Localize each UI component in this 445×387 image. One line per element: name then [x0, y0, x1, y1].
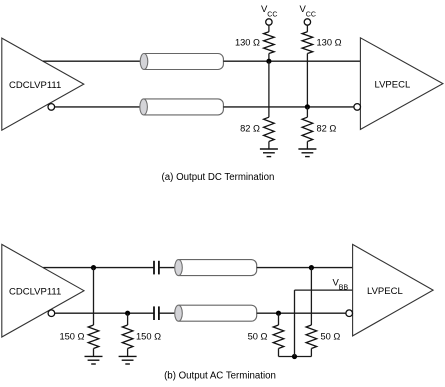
svg-text:CDCLVP111: CDCLVP111 [9, 80, 61, 91]
wire: bottom rail joining R7 and R8 [279, 356, 312, 358]
node: R5 tap on true line [91, 265, 96, 270]
resistor R3 82 ohm [240, 117, 274, 149]
ground symbol 4 [119, 356, 137, 364]
svg-text:BB: BB [339, 284, 349, 291]
svg-text:(a) Output DC Termination: (a) Output DC Termination [162, 172, 275, 183]
node: R1/R3 tap on true line [266, 59, 271, 64]
resistor R8 50 ohm [306, 325, 340, 357]
capacitor C1 [154, 261, 159, 275]
svg-text:CDCLVP111: CDCLVP111 [9, 286, 61, 297]
wire: R1 tap down to R3 [268, 61, 270, 117]
wire: C1 to T3 [159, 267, 179, 269]
transmission line T1 [140, 54, 223, 70]
wire: C2 to T4 [159, 312, 179, 314]
wire: tap down to R7 [278, 313, 280, 325]
svg-text:CC: CC [267, 12, 277, 19]
svg-text:50 Ω: 50 Ω [248, 332, 268, 342]
svg-text:50 Ω: 50 Ω [321, 332, 341, 342]
inversion bubble on U3 complementary output [48, 310, 55, 317]
svg-text:150 Ω: 150 Ω [136, 332, 161, 342]
svg-text:150 Ω: 150 Ω [59, 332, 84, 342]
wire: tap down to R5 [93, 268, 95, 325]
ground symbol 1 [260, 149, 278, 157]
transmission line T4 [175, 305, 257, 321]
receiver U2 LVPECL (a) [360, 38, 443, 130]
inversion bubble on U2 inverting input [354, 104, 361, 111]
receiver U4 LVPECL (b) [353, 244, 434, 336]
resistor R6 150 ohm [122, 325, 161, 356]
node: R2/R4 tap on complementary line [305, 104, 310, 109]
wire: VBB vertical drop [294, 290, 296, 356]
wire: T3 to U4 input [257, 267, 353, 269]
svg-text:130 Ω: 130 Ω [235, 37, 260, 47]
node: R6 tap on complementary line [125, 311, 130, 316]
resistor R2 130 ohm [302, 32, 341, 107]
wire: U1 true output to T1 [43, 60, 144, 62]
node: R8 tap on true line [309, 265, 314, 270]
wire: VBB horizontal to U4 [295, 289, 353, 291]
buffer U3 CDCLVP111 (b) [2, 244, 84, 337]
wire: tap down to R8 [310, 268, 312, 325]
capacitor C2 [154, 306, 159, 320]
transmission line T2 [140, 99, 224, 115]
svg-text:(b) Output AC Termination: (b) Output AC Termination [164, 370, 276, 381]
ground symbol 3 [85, 356, 103, 364]
inversion bubble on U4 inverting input [346, 310, 353, 317]
node: R7 tap on complementary line [276, 311, 281, 316]
wire: T1 to U2 input [223, 60, 360, 62]
power VCC symbol 1 [261, 4, 277, 32]
resistor R5 150 ohm [59, 325, 98, 356]
svg-text:82 Ω: 82 Ω [317, 124, 337, 134]
resistor R7 50 ohm [248, 325, 284, 357]
node: VBB drop on bottom rail [292, 354, 297, 359]
transmission line T3 [175, 260, 257, 276]
wire: U3 complementary output to C2 [55, 312, 154, 314]
power VCC symbol 2 [300, 4, 316, 32]
ground symbol 2 [298, 149, 316, 157]
svg-text:130 Ω: 130 Ω [317, 37, 342, 47]
wire: R2 tap down to R4 [306, 107, 308, 117]
svg-text:LVPECL: LVPECL [375, 79, 411, 90]
wire: T2 to U2 inverting input [223, 106, 354, 108]
wire: T4 to U4 inverting input [257, 312, 346, 314]
svg-text:82 Ω: 82 Ω [240, 124, 260, 134]
resistor R1 130 ohm [235, 32, 274, 61]
buffer U1 CDCLVP111 (a) [2, 38, 84, 130]
inversion bubble on U1 complementary output [48, 104, 55, 111]
wire: tap down to R6 [127, 313, 129, 325]
svg-text:LVPECL: LVPECL [367, 286, 403, 297]
net label VBB [333, 278, 349, 292]
wire: U3 true output to C1 [43, 267, 154, 269]
resistor R4 82 ohm [302, 117, 336, 149]
wire: U1 complementary output to T2 [55, 106, 144, 108]
svg-text:CC: CC [306, 12, 316, 19]
